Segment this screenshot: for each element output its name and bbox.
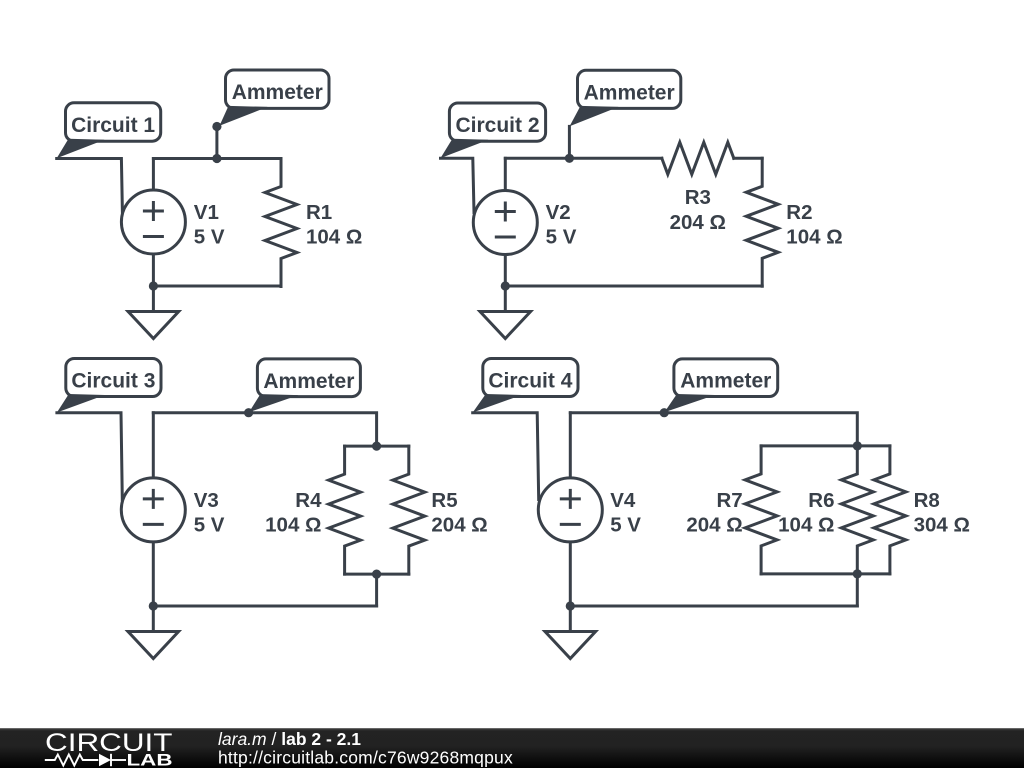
svg-text:V1: V1	[194, 201, 219, 224]
svg-text:lara.m / lab 2 - 2.1: lara.m / lab 2 - 2.1	[218, 729, 361, 749]
svg-text:5 V: 5 V	[194, 226, 225, 249]
svg-text:304 Ω: 304 Ω	[914, 513, 970, 536]
svg-text:5 V: 5 V	[610, 513, 641, 536]
svg-text:Circuit 1: Circuit 1	[71, 114, 155, 137]
svg-text:104 Ω: 104 Ω	[786, 226, 842, 249]
svg-text:R6: R6	[808, 489, 834, 512]
svg-text:Ammeter: Ammeter	[680, 370, 771, 393]
svg-text:5 V: 5 V	[194, 513, 225, 536]
svg-text:204 Ω: 204 Ω	[670, 211, 726, 234]
svg-text:R2: R2	[786, 201, 812, 224]
svg-text:5 V: 5 V	[546, 226, 577, 249]
svg-text:Circuit 2: Circuit 2	[455, 114, 539, 137]
svg-text:104 Ω: 104 Ω	[265, 513, 321, 536]
svg-text:V3: V3	[194, 489, 219, 512]
svg-text:LAB: LAB	[127, 752, 173, 768]
svg-text:R8: R8	[914, 489, 940, 512]
svg-text:104 Ω: 104 Ω	[778, 513, 834, 536]
svg-text:204 Ω: 204 Ω	[431, 513, 487, 536]
svg-text:V2: V2	[546, 201, 571, 224]
svg-text:V4: V4	[610, 489, 636, 512]
svg-text:R7: R7	[716, 489, 742, 512]
svg-text:Circuit 3: Circuit 3	[71, 370, 155, 393]
svg-text:Circuit 4: Circuit 4	[488, 370, 572, 393]
svg-text:Ammeter: Ammeter	[263, 370, 354, 393]
svg-text:R4: R4	[295, 489, 322, 512]
svg-text:R3: R3	[685, 186, 711, 209]
svg-text:R1: R1	[306, 201, 332, 224]
svg-text:204 Ω: 204 Ω	[686, 513, 742, 536]
svg-text:http://circuitlab.com/c76w9268: http://circuitlab.com/c76w9268mqpux	[218, 748, 513, 768]
svg-text:Ammeter: Ammeter	[584, 81, 675, 104]
svg-text:R5: R5	[431, 489, 457, 512]
svg-text:104 Ω: 104 Ω	[306, 226, 362, 249]
svg-text:Ammeter: Ammeter	[232, 81, 323, 104]
